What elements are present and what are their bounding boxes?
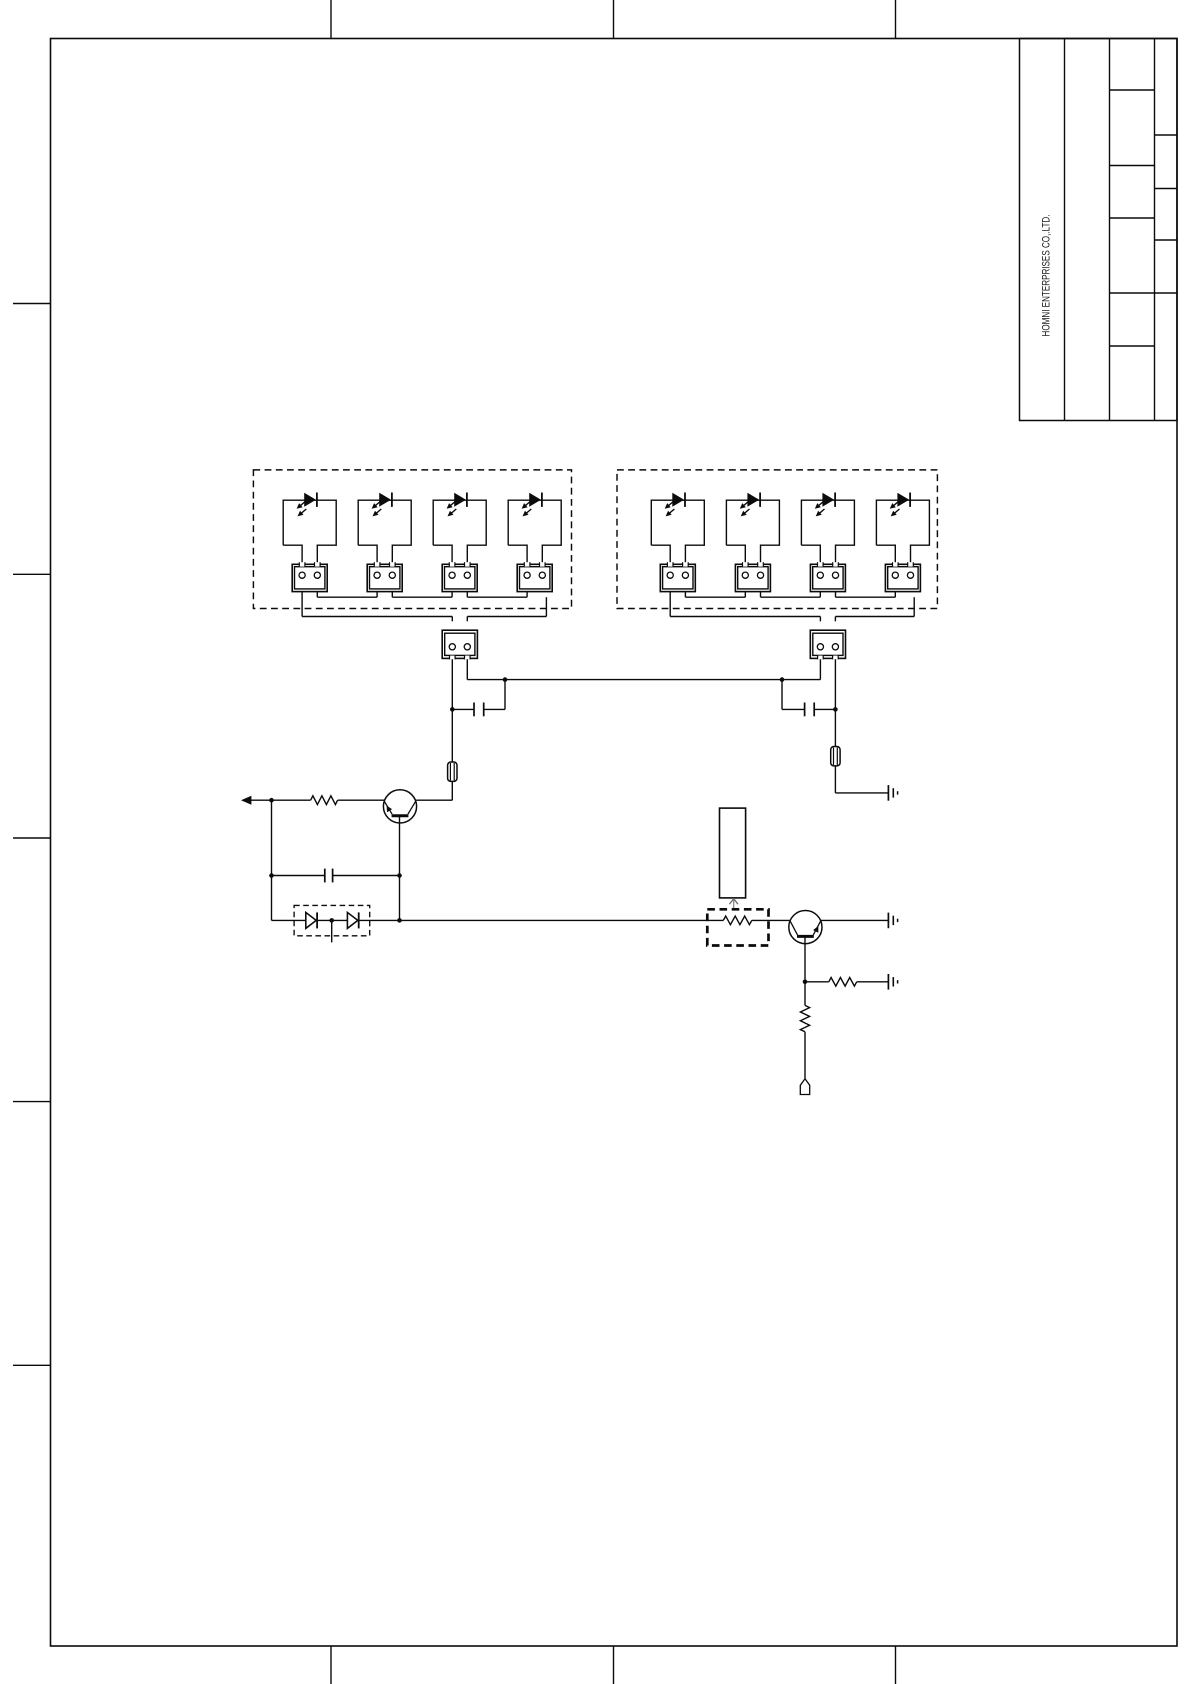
dashed enclosure diodes [294,905,370,935]
LED 3 symbol [454,493,466,507]
capacitor C1 [452,708,474,710]
connector CN2 (module plug) [367,564,402,591]
stub from diode midpoint [331,920,333,942]
wire CN10 pin1 to rail [819,659,821,679]
LED module 3 outline [433,500,486,563]
junction base/diode row [397,918,402,923]
ground G3 [887,974,889,990]
wire R1 to off-page [251,799,311,801]
connector CN1 (module plug) [292,564,327,591]
ferrite bead L1 [448,762,457,781]
resistor R4 [800,1005,809,1031]
wire node to R3 [805,981,829,983]
connector CN8 (module plug) [885,564,920,591]
resistor R1 [311,796,338,805]
transistor Q1 [383,790,416,823]
wire Q1 emitter to R1 [338,799,384,801]
wire R4 to terminal [804,1032,806,1079]
LED module 8 outline [876,500,929,563]
wire CN10 pin2 down [834,659,836,793]
ground G1 [887,785,889,801]
power rail between sections [467,679,820,681]
connector CN6 (module plug) [735,564,770,591]
junction CN9 pin1/C1 [450,707,455,712]
LED module 5 outline [651,500,704,563]
resistor R3 [829,978,857,987]
main connector CN9 (left harness) [442,630,477,658]
junction rail/C1 [503,677,508,682]
wire Q1 base lead [399,817,401,921]
LED 6 symbol [747,493,759,507]
transistor Q2 [789,911,822,944]
diode D2 [347,912,357,928]
LED module 7 outline [801,500,854,563]
dashed enclosure LED array 2 [617,470,937,609]
wire node A to D1 [272,919,306,921]
off-page arrow (supply) [241,796,251,805]
wire VR1 to Q2 [769,919,791,921]
junction A/C2 [269,873,274,878]
junction rail/C3 [780,677,785,682]
wire R3 to ground [857,981,889,983]
connector CN4 (module plug) [517,564,552,591]
wire D1-D2 [318,919,348,921]
connector CN3 (module plug) [442,564,477,591]
LED 8 symbol [897,493,909,507]
LED 2 symbol [379,493,391,507]
wire diode row to VR1 [360,919,708,921]
LED module 1 outline [283,500,336,563]
dashed enclosure VR1 [707,909,768,945]
junction D1/D2 [329,918,334,923]
capacitor C3 [782,708,805,710]
main connector CN10 (right harness) [810,630,845,658]
LED 2 emission arrows [375,501,381,506]
capacitor C2 [272,875,325,877]
LED module 6 outline [726,500,779,563]
svg-text:HOMNI ENTERPRISES CO,.LTD.: HOMNI ENTERPRISES CO,.LTD. [1040,215,1052,337]
wire C1 riser [504,680,506,710]
diode D1 [306,912,316,928]
LED 5 symbol [672,493,684,507]
LED 7 emission arrows [818,501,824,506]
wire C3 riser [781,680,783,710]
wire node A down [271,800,273,920]
photoresistor body LDR1 [720,808,746,898]
wire Q2 emitter lead [804,937,806,1005]
junction node A [269,798,274,803]
connector CN7 (module plug) [810,564,845,591]
wiper arrow to LDR1 [733,900,735,910]
LED 3 emission arrows [450,501,456,506]
array 1 interconnect wires [316,592,318,597]
LED 6 emission arrows [743,501,749,506]
ferrite bead L2 [831,747,840,766]
ground G2 [887,913,889,929]
LED 1 emission arrows [300,501,306,506]
LED 5 emission arrows [668,501,674,506]
terminal lug E1 [800,1079,809,1095]
LED module 4 outline [508,500,561,563]
wire CN9 pin2 to rail [466,659,468,679]
junction CN10 pin2/C3 [833,707,838,712]
dashed enclosure LED array 1 [253,470,571,609]
LED 4 symbol [529,493,541,507]
resistor VR1 element [707,919,723,921]
wire Q2 collector to ground [821,919,889,921]
junction C2/base [397,873,402,878]
connector CN5 (module plug) [660,564,695,591]
LED 8 emission arrows [893,501,899,506]
LED 7 symbol [822,493,834,507]
LED 4 emission arrows [525,501,531,506]
junction Q2 emitter node [803,980,808,985]
wire CN9 pin1 down [451,659,453,800]
wire Q1 collector to CN9 line [416,799,452,801]
LED 1 symbol [304,493,316,507]
array 2 interconnect wires [684,592,686,597]
LED module 2 outline [358,500,411,563]
